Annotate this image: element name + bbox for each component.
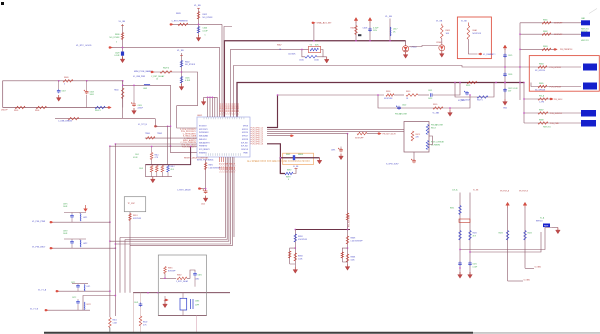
resistor s4b [346,254,355,262]
svg-text:L6T1: L6T1 [87,286,91,288]
capacitor C621 [428,90,436,100]
resistor reset [204,163,220,170]
net labels above Q1 [395,113,439,116]
diode CR603 [436,42,445,51]
power net VL_SB label C [177,50,184,52]
green labels Q1b [431,142,444,147]
svg-text:0.1UF: 0.1UF [473,266,478,268]
wire D1 to D2 [409,46,439,47]
svg-text:R6B5: R6B5 [539,83,544,85]
resistor usb debug [68,117,79,120]
resistor R602 [180,61,196,68]
ground A [120,57,125,63]
node arrow PNL1 [50,221,54,223]
svg-text:R6X3: R6X3 [499,233,503,235]
wire through orange box [280,157,320,159]
svg-text:SUSCLK: SUSCLK [241,149,249,151]
net CLK32K label [288,54,296,56]
component in orange box [286,154,303,160]
junction s4 [347,247,348,248]
net VL_SB stub L617 [385,16,392,41]
labels TP [145,133,162,135]
svg-text:C6T2: C6T2 [72,297,76,299]
resistor col460b [459,231,462,241]
svg-text:VL_PNL_BKLT: VL_PNL_BKLT [32,247,46,249]
junction A [122,47,123,48]
resistor col151 upper [150,146,153,165]
wire IC bottom bundle [226,157,235,237]
svg-text:R6W3: R6W3 [351,238,356,240]
highlight box2 [529,56,599,92]
node arrow MINI_PCIE_WAKE# [151,71,155,73]
net MINI_PCIE_WAKE# label [134,70,154,73]
resistor in Q1 [411,131,420,141]
resistor R619 [406,91,418,100]
svg-text:C629: C629 [115,53,120,55]
svg-text:PWRBTN#: PWRBTN# [199,146,207,148]
net VL label2 [473,190,479,192]
svg-text:PM_BATLOW#: PM_BATLOW# [395,113,407,116]
row y99 [523,94,562,103]
ground C6F1 [339,154,344,160]
resistor R606 [35,106,47,112]
transistor Q1 box [404,122,429,153]
resistor R611 [436,21,451,45]
wire Q1 right stub [429,136,433,145]
resistor chg red [294,253,303,261]
resistor R612 [197,12,213,20]
svg-text:VL_TT_A: VL_TT_A [38,288,47,291]
svg-text:VL_RSMRST#: VL_RSMRST# [483,54,496,56]
connector row5 [531,83,597,92]
wire s4 col down [347,230,349,265]
svg-text:CLK32K: CLK32K [288,54,296,56]
svg-text:PCH_GPIO28: PCH_GPIO28 [550,86,561,88]
svg-text:R6R1: R6R1 [209,165,213,167]
junction B [198,24,199,25]
svg-text:4.7K: 4.7K [155,157,159,159]
svg-text:NOSTUFF: NOSTUFF [355,137,364,139]
wire B vertical [197,8,200,36]
svg-text:RESET#_DELAY 100MS MAX: RESET#_DELAY 100MS MAX [184,157,209,160]
resistor R620 [433,104,443,109]
labels PNL1 [63,204,87,220]
wire L3 thick [237,83,524,118]
svg-text:5: 5 [205,35,206,37]
svg-text:10UF: 10UF [63,233,68,235]
capacitor C615 label [299,59,305,61]
capacitor C605 [180,77,191,84]
svg-text:REF: REF [544,225,549,227]
ground D2 [440,50,445,58]
gnd arrow PNL1 [83,205,87,212]
node arrow row3 [378,132,396,135]
wire pch row4 stub [267,135,294,137]
pol capacitor C623 [460,91,471,102]
node arrow rowA [56,290,60,292]
ground cluster [151,177,156,183]
wire col110 tail [109,328,111,333]
wire bundle B3 to IC [219,47,221,117]
svg-text:C_RST#_DELAY: C_RST#_DELAY [177,188,191,191]
svg-text:25V: 25V [508,91,512,93]
resistor colB [524,231,532,241]
net labels IC right [251,127,264,145]
ground IC top [201,99,206,105]
riser rowB [83,295,116,310]
net stub colB [535,267,542,269]
node box diamond [164,299,169,303]
wire y95 right [418,94,429,96]
svg-text:PME#: PME# [243,152,248,154]
wire C vertical [180,53,183,85]
wire line y95 [277,94,384,95]
bracket comp [191,299,194,309]
svg-text:C_RST_PWRBTN#: C_RST_PWRBTN# [172,21,189,23]
highlight box1 [457,17,491,59]
svg-text:S_OBS1: S_OBS1 [524,279,531,281]
svg-text:L6P1: L6P1 [83,217,87,219]
svg-text:C626: C626 [508,74,512,76]
svg-text:PCH_GPIO24: PCH_GPIO24 [550,67,561,69]
wire bottom fan [110,237,232,246]
loop s4 [341,248,348,262]
resistor R627 blue [477,96,488,102]
svg-text:VL_SB: VL_SB [194,5,201,7]
svg-text:R607 0: R607 0 [95,110,101,112]
resistor col168 lower [167,165,170,177]
svg-text:VL_SB: VL_SB [473,190,479,192]
svg-text:FB601: FB601 [298,154,303,156]
svg-text:1.00K: 1.00K [298,258,303,260]
svg-text:PM_BATLOW#: PM_BATLOW# [431,124,443,127]
pol capacitor C608 [84,81,95,108]
wire MINI_PCIE_WAKE# [154,71,182,73]
svg-text:VL_RTC_GOOD: VL_RTC_GOOD [76,45,92,47]
svg-text:5: 5 [116,42,117,44]
node arrow rowB [45,309,49,311]
svg-text:TP_XDP: TP_XDP [128,203,136,205]
svg-text:GND: GND [503,108,508,110]
resistor R609 top [63,77,73,86]
svg-text:C6E3: C6E3 [195,301,199,303]
wire col140 down [140,293,142,316]
svg-text:C623 220UF: C623 220UF [460,100,471,102]
loop chg [288,248,295,264]
resistor R630 [110,33,124,44]
svg-text:VL_SB: VL_SB [293,166,299,168]
net CLK label [452,189,458,192]
capacitor PNL1 [70,213,74,223]
sheet border light [473,332,600,334]
svg-text:C6X1: C6X1 [473,264,477,266]
svg-text:J6B1: J6B1 [581,18,585,20]
wire pch row3 SLP_S4# [267,133,348,134]
svg-text:49.9: 49.9 [171,169,174,171]
net RESET#_DELAY [184,157,209,160]
inductor L617 [390,27,398,36]
svg-text:PCH_RSMRST#: PCH_RSMRST# [182,147,197,149]
wire chg left [294,230,296,268]
resistor col151 lower [150,166,153,177]
svg-text:C6L1: C6L1 [135,154,139,156]
vcc arrow col505 [503,45,507,99]
rail PNL1 [64,212,86,214]
svg-text:VL_SB3: VL_SB3 [433,113,440,115]
resistor R_xtal [305,56,317,59]
svg-text:0.1UF: 0.1UF [373,28,379,30]
page corner mark [1,2,4,5]
capacitor C607 [57,81,66,94]
wire R6F2 up [293,166,299,174]
ground chg [290,264,298,273]
net row B label [30,308,39,310]
wire y95 end [436,82,461,95]
svg-text:10%: 10% [373,30,377,32]
svg-text:R6W2: R6W2 [298,256,303,258]
svg-text:PM_A: PM_A [539,94,545,97]
svg-text:C621: C621 [428,90,432,92]
wire box to border [196,316,198,333]
connector row7 [523,109,596,116]
svg-text:0.1UF: 0.1UF [114,55,120,57]
wire PCH_PWRBTN# [173,23,222,25]
svg-text:R6X1: R6X1 [450,208,454,210]
svg-text:TP602: TP602 [157,133,162,135]
wire bus main L1 corner [224,41,405,117]
junction C [181,71,182,72]
svg-text:10UF: 10UF [90,94,95,96]
highlight box orange [283,153,314,164]
svg-text:NOSTUFF: NOSTUFF [168,270,176,272]
svg-text:NO_STUFF: NO_STUFF [185,64,196,66]
svg-text:32K: 32K [315,44,319,46]
node arrow PNL2 [50,247,54,249]
capacitor PNL2 [70,239,74,248]
net stub colA [524,279,531,281]
wire IC top gnd pins [204,97,218,117]
op-amp U601 PCH block [197,117,250,157]
svg-text:PCH_CLKRUN#: PCH_CLKRUN# [431,142,444,144]
svg-text:VL_SB: VL_SB [119,21,126,23]
svg-text:U601: U601 [197,115,203,117]
node arrow RSMRST [478,53,496,56]
wire bundle B2 to IC [224,27,232,118]
resistor R6A1 [461,21,482,40]
wire colB [525,207,534,268]
svg-text:R6A7: R6A7 [277,43,282,46]
capacitor C606 [197,27,208,37]
wire C_USB_DEBUG [55,119,155,127]
capacitor C6E1 [193,272,202,287]
svg-text:C622: C622 [402,104,406,106]
loop below L3 [455,83,494,98]
svg-text:GMA_ALS_INT: GMA_ALS_INT [317,22,333,25]
wire chg rail [295,229,350,230]
REF block [536,216,550,227]
svg-text:C_RST_DELAY: C_RST_DELAY [151,75,165,78]
svg-text:VL_TXT_B: VL_TXT_B [138,124,148,126]
svg-text:C_XDP_T8: C_XDP_T8 [234,163,236,173]
box bottom wire [158,315,206,317]
svg-text:SML0DATA: SML0DATA [199,135,209,138]
svg-text:ALL SPEED XXXX XXX ARE XXX AND: ALL SPEED XXXX XXX ARE XXX AND XXXX RUN … [247,160,310,163]
ground reset [201,196,208,206]
svg-text:R606: R606 [35,110,39,112]
svg-text:R6B2: R6B2 [543,31,548,33]
svg-text:SML0CLK: SML0CLK [199,139,208,141]
wire thick IC botleft [145,146,191,165]
svg-text:C6U1: C6U1 [134,302,138,304]
resistor blue Q1a [426,125,429,135]
bus label R6 [277,43,282,51]
net label SLP_S4 vertical [348,214,350,227]
svg-text:R627 0: R627 0 [477,100,483,102]
svg-text:GPIO8: GPIO8 [243,126,248,128]
wire PNL row2 [53,248,116,249]
speed note [247,160,310,163]
resistor col110 bottom [109,318,118,328]
svg-text:L603: L603 [143,88,147,90]
wire reset [205,160,207,191]
svg-text:1.00K NOSTUFF: 1.00K NOSTUFF [351,240,363,242]
wire col167 down [167,126,169,164]
wire col125 down [124,240,126,293]
junction top gnd [207,97,213,98]
rail rowA [72,283,88,285]
wire A vertical [121,24,124,60]
svg-text:NOSTUFF: NOSTUFF [473,33,482,35]
svg-text:R629 0: R629 0 [163,68,169,70]
node arrow usb [108,106,112,108]
wire cap branch [187,270,195,278]
ground col505 [503,99,508,110]
svg-text:R6T2: R6T2 [87,304,91,306]
labels bracket [195,301,199,307]
svg-text:SYS_RESET#: SYS_RESET# [199,149,210,151]
svg-text:VR_PCH_A: VR_PCH_A [500,190,510,193]
svg-text:SRTCRST#: SRTCRST# [199,129,208,131]
svg-text:R6F1: R6F1 [286,154,290,156]
wire col470 [469,193,471,275]
labels cluster lower [139,166,175,171]
inductor PNL2 [80,239,81,247]
svg-text:VL_SB: VL_SB [177,50,184,52]
edge labels [1,110,9,112]
svg-text:R612: R612 [203,14,208,16]
resistor col162 lower [161,165,164,177]
svg-text:C6L3: C6L3 [139,168,143,170]
wire col130 down [129,246,131,293]
svg-text:C606: C606 [203,28,208,30]
svg-text:C625: C625 [508,55,512,57]
svg-text:R6B8: R6B8 [539,119,544,121]
capacitor col470c [468,262,477,269]
rail PNL2 [64,238,86,240]
svg-text:PCH_GPIO_C8: PCH_GPIO_C8 [251,144,264,146]
net VL_PNL_PWR label [32,221,46,223]
svg-text:R6W1: R6W1 [298,236,303,238]
svg-text:0.1UF: 0.1UF [185,80,191,82]
wire pch row8 thick [267,144,285,174]
wire bus b1 [459,228,552,251]
ground REF [552,228,560,234]
connector row1 [520,18,590,33]
green labels Q1 [431,124,443,130]
wire SLP_S4# down [347,134,349,230]
capacitor C626 [503,73,512,77]
logo mark [358,34,361,36]
vcc colA [500,190,510,208]
svg-text:C615: C615 [299,59,305,61]
svg-text:NOSTUFF: NOSTUFF [384,98,393,100]
resistor R629 [160,68,172,74]
resistor col470b [469,231,477,241]
resistor R610 right edge [114,88,124,99]
node reset diamond [177,187,206,191]
junction L3 a [454,82,524,83]
svg-text:R628: R628 [176,13,181,15]
row3 net stub [520,46,572,51]
ground s4 [342,262,350,270]
net label C_USB_DEBUG [58,121,73,123]
net S_GPIO label [386,163,398,165]
svg-text:R6U1: R6U1 [113,320,117,322]
power net VL_SB label A [119,21,126,23]
svg-text:R6E2: R6E2 [177,275,182,277]
wire vert right of IC [267,95,278,128]
node arrow pwrbtn [170,23,174,25]
labels col151 upper [133,154,139,159]
svg-text:R6E1: R6E1 [168,268,173,270]
svg-text:C618: C618 [363,28,369,30]
svg-text:NO_STUFF: NO_STUFF [110,37,121,39]
corner diagonal mark [589,9,597,14]
wire rowB [48,309,90,311]
wire long row y146 [109,146,197,147]
junction col505 [504,66,505,83]
resistor colA [499,231,509,241]
ground y108 [448,107,453,116]
resistor R_xdp [129,214,141,221]
crystal Y6E1 [180,293,187,316]
svg-text:TP601: TP601 [145,133,150,135]
usb box bottom [3,107,108,109]
svg-text:R6B3: R6B3 [543,46,548,48]
resistor chg blue [294,234,307,242]
wire rows left vert [519,23,520,100]
ground C609 [132,108,137,114]
svg-text:10K: 10K [446,33,450,35]
pol capacitor C609 [131,85,144,110]
svg-text:0.1UF: 0.1UF [133,157,138,159]
resistor R618 [384,91,394,100]
svg-text:R6D1: R6D1 [133,215,138,217]
junction usb top [58,80,123,81]
node arrow VL_RTC_GOOD [109,46,113,48]
rail cluster bottom [145,165,172,177]
svg-text:VL_TT_B: VL_TT_B [30,308,39,310]
net labels IC top [220,102,240,114]
svg-text:C610: C610 [201,204,205,206]
resistor col140 bottom [139,316,147,326]
svg-text:PCH_SUSCLK: PCH_SUSCLK [550,113,563,115]
resistor col460 blue [450,206,461,215]
wire col460 [459,193,461,275]
capacitor rowA [71,282,80,291]
wire PNL row1 [53,222,111,223]
svg-text:RTCRST#: RTCRST# [199,126,207,128]
